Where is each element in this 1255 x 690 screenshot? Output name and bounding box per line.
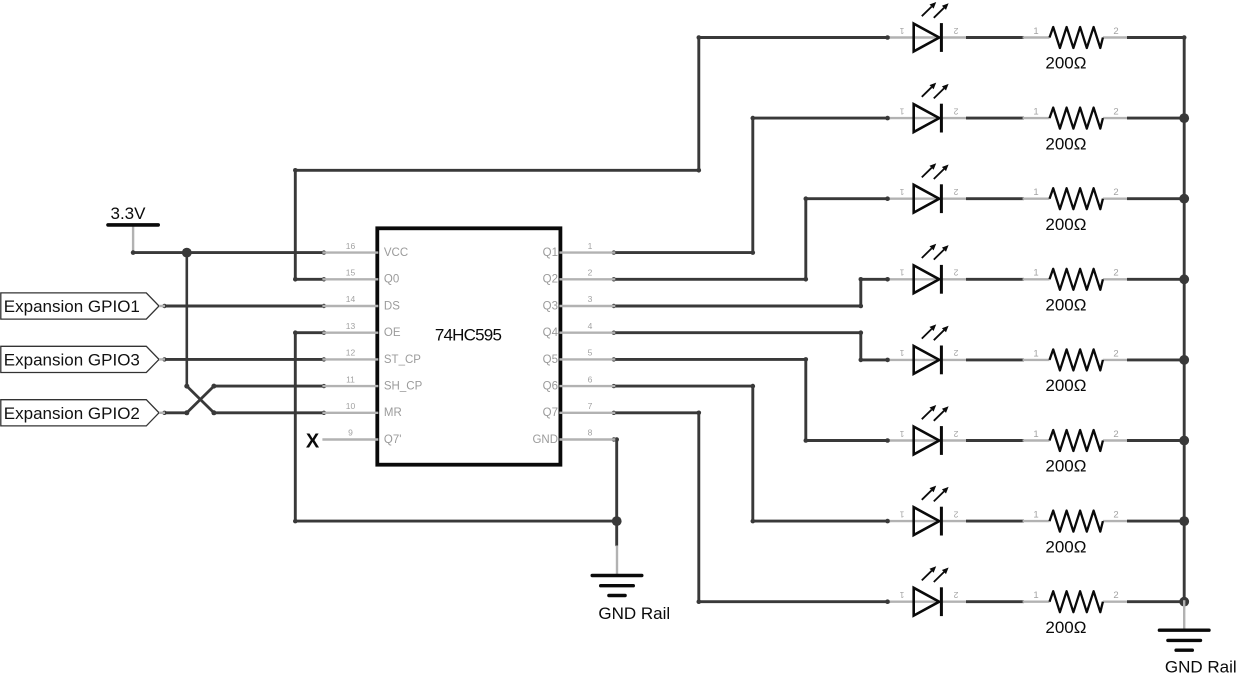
svg-text:SH_CP: SH_CP <box>384 381 423 393</box>
svg-text:5: 5 <box>588 348 593 358</box>
svg-text:4: 4 <box>588 321 593 331</box>
svg-text:14: 14 <box>346 294 356 304</box>
svg-text:1: 1 <box>588 241 593 251</box>
svg-text:12: 12 <box>346 348 356 358</box>
svg-text:OE: OE <box>384 327 401 339</box>
svg-text:Q4: Q4 <box>543 327 559 339</box>
svg-text:3: 3 <box>588 294 593 304</box>
svg-text:GND Rail: GND Rail <box>598 604 670 623</box>
svg-text:GND: GND <box>532 434 558 446</box>
svg-text:10: 10 <box>346 401 356 411</box>
svg-text:13: 13 <box>346 321 356 331</box>
svg-text:Expansion GPIO3: Expansion GPIO3 <box>4 351 140 370</box>
svg-text:VCC: VCC <box>384 247 408 259</box>
svg-text:Expansion GPIO1: Expansion GPIO1 <box>4 297 140 316</box>
svg-text:DS: DS <box>384 300 400 312</box>
svg-text:2: 2 <box>588 268 593 278</box>
svg-text:8: 8 <box>588 428 593 438</box>
svg-text:74HC595: 74HC595 <box>435 326 502 345</box>
svg-text:16: 16 <box>346 241 356 251</box>
svg-text:9: 9 <box>348 428 353 438</box>
svg-text:6: 6 <box>588 374 593 384</box>
svg-text:MR: MR <box>384 407 402 419</box>
svg-text:ST_CP: ST_CP <box>384 354 421 366</box>
svg-text:Q5: Q5 <box>543 354 558 366</box>
svg-text:15: 15 <box>346 268 356 278</box>
svg-text:X: X <box>306 431 320 453</box>
svg-text:Q1: Q1 <box>543 247 558 259</box>
svg-text:11: 11 <box>346 374 355 384</box>
svg-text:Q7: Q7 <box>543 407 558 419</box>
svg-text:Expansion GPIO2: Expansion GPIO2 <box>4 404 140 423</box>
svg-text:Q6: Q6 <box>543 381 558 393</box>
svg-text:GND Rail: GND Rail <box>1165 658 1237 677</box>
svg-text:Q2: Q2 <box>543 274 558 286</box>
svg-text:7: 7 <box>588 401 593 411</box>
svg-text:Q7': Q7' <box>384 434 402 446</box>
svg-text:Q3: Q3 <box>543 300 558 312</box>
svg-text:3.3V: 3.3V <box>111 204 147 223</box>
svg-text:Q0: Q0 <box>384 274 399 286</box>
